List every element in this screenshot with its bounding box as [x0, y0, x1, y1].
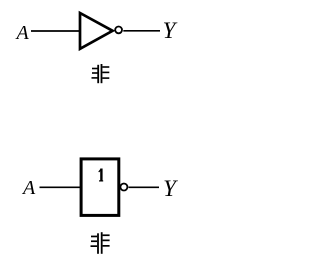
label 非 (NOT) under bottom gate, drawn as strokes — [91, 232, 110, 254]
svg-text:A: A — [15, 22, 30, 44]
wire (bottom output wire bubble to Y) — [129, 186, 160, 188]
inversion bubble (bottom gate output) — [120, 184, 127, 191]
wire (top output wire bubble to Y) — [123, 30, 160, 32]
svg-text:Y: Y — [163, 18, 178, 43]
inverter U2 rectangular IEC body — [81, 159, 119, 216]
label 非 (NOT) under top gate, drawn as strokes — [92, 64, 110, 83]
pin label 1 (amplification qualifier), drawn as strokes — [98, 169, 103, 182]
inversion bubble (top gate output) — [115, 27, 122, 34]
wire (bottom input wire A to box) — [40, 186, 82, 188]
svg-text:A: A — [21, 177, 36, 199]
svg-text:Y: Y — [163, 176, 178, 201]
wire (top input wire A to triangle) — [31, 30, 80, 32]
inverter U1 triangle (distinctive-shape NOT gate) — [80, 13, 113, 49]
